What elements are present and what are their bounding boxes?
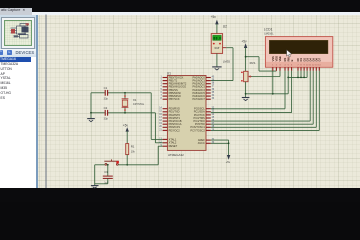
resistor R1 <box>126 144 129 155</box>
node C3 joins reset rail <box>107 164 109 166</box>
left object-selector panel <box>0 15 36 189</box>
svg-text:+5v: +5v <box>226 160 231 164</box>
svg-text:6: 6 <box>161 92 163 94</box>
svg-text:RESET: RESET <box>169 144 178 148</box>
wire reset rail <box>95 146 163 165</box>
svg-text:AVCC: AVCC <box>198 141 205 145</box>
svg-text:7: 7 <box>161 95 163 97</box>
schematic capture tab <box>0 8 32 15</box>
svg-text:5: 5 <box>161 89 163 91</box>
svg-text:36: 36 <box>212 89 215 91</box>
wire D0-D3 tie rail <box>288 76 307 78</box>
wire LCD D7 to U1 PC7 <box>211 71 319 131</box>
top black bar <box>0 0 360 11</box>
wire U2 VOUT to U1 PA1 <box>211 48 233 81</box>
svg-text:E: E <box>290 59 294 61</box>
svg-text:XTAL1: XTAL1 <box>169 137 177 141</box>
wire LCD D5 to U1 PC5 <box>211 71 313 124</box>
wire LCD D6 to U1 PC6 <box>211 71 316 128</box>
svg-text:RW: RW <box>286 57 290 62</box>
svg-text:40: 40 <box>212 76 215 78</box>
power +5V arrow for U2 <box>215 20 218 34</box>
svg-text:21: 21 <box>159 129 162 131</box>
node D0 junction <box>297 77 299 79</box>
wire C1 net to XTAL1 <box>91 93 163 140</box>
svg-text:XTAL2: XTAL2 <box>169 141 177 145</box>
schematic sheet left border <box>45 15 47 189</box>
svg-text:PC7/TOSC2: PC7/TOSC2 <box>190 128 205 132</box>
capacitor C1 <box>105 90 107 96</box>
node D1 junction <box>300 77 302 79</box>
power +5V arrow for RV1 <box>244 43 247 71</box>
wire LCD D2 drop <box>303 71 305 78</box>
svg-text:U2: U2 <box>223 24 227 28</box>
svg-text:C3: C3 <box>104 170 108 174</box>
svg-text:C2: C2 <box>104 106 108 110</box>
U1 left pin numbers <box>159 76 162 147</box>
svg-text:RV1: RV1 <box>250 61 256 65</box>
svg-text:33p: 33p <box>104 118 109 121</box>
wire capacitor ground rail <box>90 93 92 119</box>
wire LCD D4 to U1 PC4 <box>211 71 310 121</box>
node AREF AVCC junction <box>228 142 230 144</box>
svg-text:PD7/OC2: PD7/OC2 <box>169 128 181 132</box>
svg-text:33: 33 <box>212 98 215 100</box>
editor divider <box>36 15 38 189</box>
wire C3 bottom to ground <box>95 165 108 186</box>
mouse cursor <box>287 50 292 57</box>
power terminal arrow down <box>227 155 230 160</box>
wire ground rail to LCD RW and VSS <box>246 93 289 95</box>
LCD display LCD1 body <box>265 37 332 68</box>
wire R1 bottom to reset rail <box>126 155 128 165</box>
ground symbol below C1 C2 <box>87 119 95 122</box>
svg-text:88.0: 88.0 <box>213 37 221 41</box>
svg-text:20: 20 <box>159 126 162 128</box>
wire LCD D3 drop <box>306 71 308 78</box>
svg-text:PA7/ADC7: PA7/ADC7 <box>192 97 205 101</box>
svg-text:15: 15 <box>159 111 162 113</box>
node R1 joins reset rail <box>126 164 128 166</box>
svg-text:25: 25 <box>212 117 215 119</box>
svg-text:10k: 10k <box>131 150 136 153</box>
crystal X1 <box>122 93 129 113</box>
svg-text:24: 24 <box>212 114 215 116</box>
svg-text:U1: U1 <box>167 72 171 76</box>
svg-text:17: 17 <box>159 117 162 119</box>
wire RV1 bottom to ground <box>245 82 247 98</box>
wire LCD D1 drop <box>300 71 302 78</box>
ground symbol bottom left <box>91 186 99 188</box>
svg-text:R1: R1 <box>131 145 135 149</box>
wire RV1 wiper to LCD VEE <box>251 71 280 77</box>
svg-text:8: 8 <box>161 98 163 100</box>
wire U1 AVCC joins <box>211 142 229 144</box>
svg-text:4: 4 <box>161 86 163 88</box>
svg-text:+5v: +5v <box>241 40 247 44</box>
svg-text:14: 14 <box>159 108 162 110</box>
capacitor C2 <box>105 110 107 116</box>
svg-text:38: 38 <box>212 83 215 85</box>
node RW joins D0-D3 tie rail <box>287 77 289 79</box>
capacitor C3 <box>103 176 113 178</box>
svg-text:LCD1: LCD1 <box>264 28 273 32</box>
ground symbol under RV1 <box>242 98 250 101</box>
svg-text:VDD: VDD <box>275 56 279 62</box>
U1 right pin stubs <box>206 78 211 144</box>
U1 left pin stubs <box>163 78 168 147</box>
preview thumbnail mini circuit <box>11 23 30 38</box>
svg-text:2: 2 <box>161 80 163 82</box>
svg-text:ATMEGA32: ATMEGA32 <box>168 153 184 157</box>
wire LCD E to U1 PC1 <box>211 71 292 113</box>
node +5V branch junction <box>245 56 247 58</box>
node D2 junction <box>303 77 305 79</box>
wire LCD VSS to ground rail <box>272 71 274 94</box>
svg-text:+5v: +5v <box>211 15 217 19</box>
svg-text:33p: 33p <box>104 98 109 101</box>
svg-text:18: 18 <box>159 120 162 122</box>
LCD1 pin stubs <box>273 67 320 71</box>
svg-text:19: 19 <box>159 123 162 125</box>
svg-text:37: 37 <box>212 86 215 88</box>
node crystal top junction <box>124 92 126 94</box>
svg-text:X1: X1 <box>133 98 137 102</box>
svg-text:PB7/SCK: PB7/SCK <box>169 97 180 101</box>
svg-text:D7: D7 <box>318 58 322 62</box>
node selected red junction <box>116 161 119 164</box>
potentiometer RV1 <box>241 71 252 81</box>
svg-text:LM35: LM35 <box>223 59 231 63</box>
svg-text:CRYSTAL: CRYSTAL <box>133 103 145 106</box>
temperature sensor U2 body <box>211 34 222 54</box>
power +5V arrow for R1 <box>126 127 129 143</box>
wire LCD RS to U1 PC0 <box>211 71 285 109</box>
U2 VOUT pin stub <box>223 47 227 49</box>
microcontroller U1 body <box>167 76 206 151</box>
wire LCD RW to ground rail <box>287 71 289 94</box>
svg-text:35: 35 <box>212 92 215 94</box>
U1 left pin name labels <box>169 75 187 148</box>
wire C3 top lead <box>107 165 109 176</box>
wire +5V branch to LCD VDD <box>246 57 277 71</box>
svg-text:LM016L: LM016L <box>264 31 274 35</box>
wire C2 net to XTAL2 <box>91 113 163 143</box>
push button <box>104 159 119 165</box>
svg-text:16: 16 <box>159 114 162 116</box>
light strip under black bar <box>32 12 360 16</box>
LCD1 pin name labels <box>271 56 322 67</box>
wire LCD D0 drop <box>297 71 299 78</box>
svg-text:C1: C1 <box>104 86 108 90</box>
node RV1 ground rail junction <box>245 93 247 95</box>
node C2 joins rail <box>90 112 92 114</box>
U1 right pin name labels <box>190 75 205 145</box>
U1 right pin numbers <box>212 76 215 144</box>
svg-text:34: 34 <box>212 95 215 97</box>
svg-text:VSS: VSS <box>271 56 275 61</box>
svg-text:1: 1 <box>161 76 163 78</box>
wire U1 AREF to power terminal <box>211 140 229 155</box>
ground symbol under U2 <box>212 53 221 70</box>
svg-text:+5v: +5v <box>123 123 129 127</box>
node crystal bottom junction <box>124 112 126 114</box>
node VSS joins ground rail <box>272 93 274 95</box>
bottom black bar <box>0 188 360 202</box>
schematic grid area <box>38 15 360 189</box>
svg-text:VEE: VEE <box>278 56 282 61</box>
svg-text:VOUT: VOUT <box>214 47 220 50</box>
svg-text:3: 3 <box>161 83 163 85</box>
